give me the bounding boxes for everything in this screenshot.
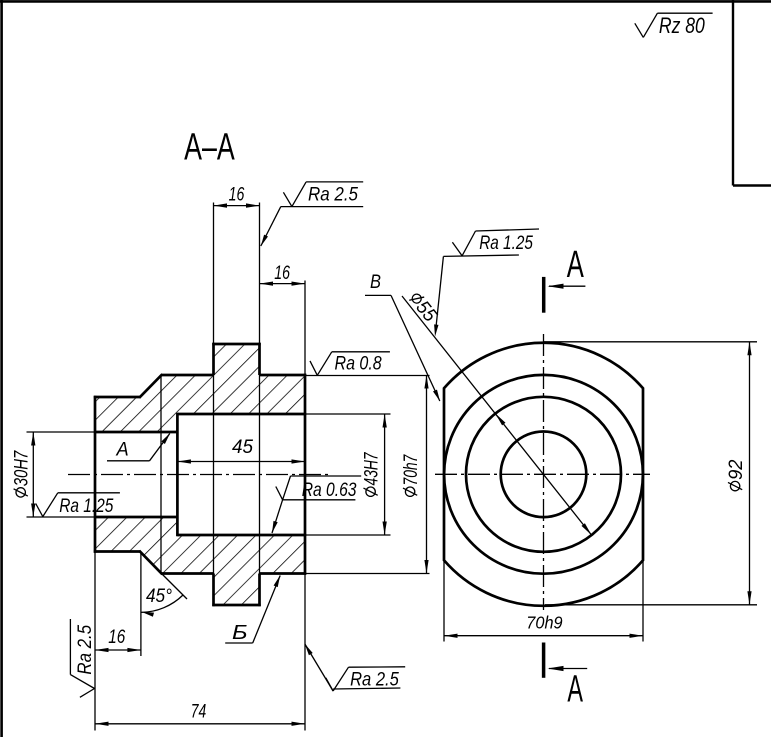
svg-text:A: A [116,438,129,460]
chamfer edge line [160,375,162,574]
svg-text:Ra 1.25: Ra 1.25 [59,495,113,517]
svg-text:Ra 0.63: Ra 0.63 [302,479,357,501]
roughness Ra 1.25 (bore dia30, left) [36,493,120,517]
svg-text:74: 74 [191,700,207,722]
part outline: left face [94,396,97,553]
dimension 45 deg chamfer [141,574,187,617]
view title A-A [184,126,235,168]
part outline: bore dia30 top [95,431,177,434]
section hatching bottom half [95,517,305,605]
svg-text:16: 16 [108,626,125,648]
svg-text:43H7: 43H7 [361,452,383,486]
general roughness symbol Rz 80 [635,13,713,38]
part outline: right face [304,374,307,575]
roughness Ra 2.5 (dia55 surface, rotated left) [70,619,95,697]
label B (Cyrillic Ve) with leader [365,271,440,401]
part axis centerline [68,474,332,476]
dimension 45 (bore length) [177,436,305,464]
svg-text:Б: Б [232,621,248,644]
svg-text:Ra 1.25: Ra 1.25 [479,232,533,254]
svg-text:A: A [567,244,585,286]
dimension dia30H7 [11,432,95,517]
section plane marker top A [544,244,586,313]
part outline: step dia55 bottom [94,550,140,553]
svg-text:A: A [567,668,583,710]
part outline: flange bottom [162,572,307,575]
svg-text:Rz 80: Rz 80 [659,13,705,38]
svg-text:A–A: A–A [184,126,235,168]
part outline: top boss [212,343,260,375]
dimension 16 (second) [260,262,306,375]
frame top border [0,0,771,3]
dimension 16 (top boss width) [214,183,260,207]
svg-text:92: 92 [725,459,747,480]
frame left border [0,0,3,737]
datum label A with leader [107,433,170,461]
svg-text:16: 16 [229,183,245,205]
title block corner lines [733,0,771,186]
surface label B (Cyrillic Be) with leader [225,575,280,644]
svg-text:Ra 2.5: Ra 2.5 [74,625,96,675]
dimension 74 (overall length) [95,574,305,731]
dimension 16 (dia55 step length) [95,552,141,731]
part outline: bottom boss [212,574,260,607]
part outline: bore dia43 bottom [177,534,306,537]
roughness Ra 2.5 (bottom, end face) [305,644,406,691]
svg-text:70h9: 70h9 [526,613,563,633]
right view vertical centerline [543,334,545,610]
part outline: bore step face [176,413,179,536]
part outline: flange top [162,374,307,377]
circle dia30 [501,432,587,518]
section hatching top half [95,344,305,432]
roughness Ra 1.25 (right, dia55) [434,229,539,337]
svg-text:45°: 45° [146,585,172,607]
svg-text:B: B [370,271,381,293]
circle dia55 [466,397,621,552]
svg-text:16: 16 [274,262,290,284]
roughness Ra 0.8 (flange face) [310,352,390,376]
part outline: bore dia43 top [177,413,306,416]
dimension dia55 diagonal [402,289,592,535]
svg-text:Ra 2.5: Ra 2.5 [350,668,399,690]
svg-text:Ra 0.8: Ra 0.8 [335,353,382,375]
dimension dia70h7 [305,375,430,574]
section plane marker bottom A [544,643,588,711]
right view horizontal centerline [435,473,650,475]
part outline: bore dia30 bottom [95,516,177,519]
roughness Ra 2.5 (top, dia92 surface) [261,182,363,246]
boss edge / extension line right [259,203,261,574]
part outline: step dia55 top [94,396,140,399]
svg-text:30H7: 30H7 [11,450,33,486]
dimension 70h9 (across flats) [444,560,643,642]
dimension dia43H7 [305,414,391,535]
boss edge / extension line left [213,203,215,574]
svg-text:70h7: 70h7 [400,454,422,486]
svg-text:Ra 2.5: Ra 2.5 [308,183,358,205]
roughness Ra 0.63 (bore dia43) [272,476,361,533]
outer dia92 profile with flats [444,343,643,606]
circle dia70 [444,375,643,574]
dimension dia92 [544,342,758,605]
part outline: chamfer bottom [139,551,162,575]
part outline: chamfer top [139,374,162,398]
svg-text:45: 45 [232,436,253,458]
